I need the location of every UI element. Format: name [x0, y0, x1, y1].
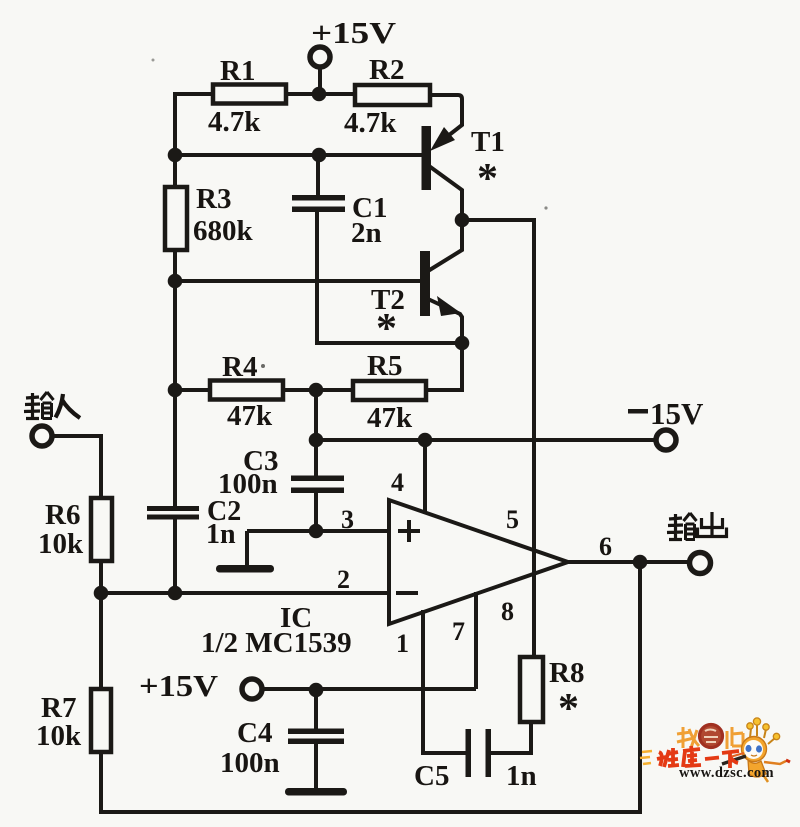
- wire: input terminal to divider: [52, 436, 101, 498]
- capacitor C1 top plate: [292, 195, 345, 201]
- resistor R6: [91, 498, 112, 561]
- capacitor C2 bottom plate: [147, 515, 199, 520]
- svg-text:7: 7: [452, 617, 465, 646]
- wire: left vertical rail C2 bottom plate to inverting-input wire: [173, 519, 177, 593]
- svg-text:100n: 100n: [218, 468, 278, 500]
- capacitor C4 stem top: [314, 689, 318, 731]
- svg-text:+15V: +15V: [139, 668, 219, 703]
- wire: pin 1 lead: [421, 610, 425, 689]
- power terminal +15V top: [310, 47, 330, 67]
- svg-text:10k: 10k: [36, 720, 82, 752]
- svg-text:1/2 MC1539: 1/2 MC1539: [201, 627, 352, 659]
- svg-text:*: *: [376, 306, 397, 352]
- wire: R5 right lead up to T2 emitter node: [426, 343, 462, 390]
- label -15V minus sign: [628, 409, 648, 414]
- resistor R2: [355, 85, 430, 105]
- wire: C1 bottom stem down and right to T2 emitter node: [317, 212, 462, 343]
- node: collector junction of T1/T2: [455, 213, 470, 228]
- label input char 入: [56, 394, 81, 418]
- resistor R1: [213, 85, 286, 104]
- wire: from collector junction right and down to R8 (pins 5 and 8 line): [462, 220, 534, 657]
- wire: non-inverting input (pin 3) wire: [247, 529, 389, 533]
- watermark text pian (片): [727, 727, 743, 749]
- svg-text:10k: 10k: [38, 528, 84, 560]
- svg-text:4: 4: [391, 468, 404, 497]
- watermark logo 找芯片 dzsc: [640, 718, 790, 782]
- svg-text:R6: R6: [45, 499, 80, 531]
- transistor T2 emitter lead with corner down to node: [428, 299, 462, 343]
- svg-text:2: 2: [337, 565, 350, 594]
- node: junction pin2 wire / C2: [168, 586, 183, 601]
- node: junction R4 wire / left rail: [168, 383, 183, 398]
- watermark chip highlight inside magnifier: [704, 730, 718, 743]
- svg-text:1n: 1n: [206, 519, 236, 550]
- watermark mascot body: [748, 760, 766, 777]
- svg-text:C4: C4: [237, 717, 272, 749]
- node: output junction: [633, 555, 648, 570]
- node: junction R4/R5/C3: [309, 383, 324, 398]
- watermark mascot head hood: [742, 737, 767, 762]
- wire: left vertical rail from R1 left end down to R3 top: [175, 94, 213, 187]
- svg-text:R3: R3: [196, 183, 231, 215]
- svg-text:1: 1: [396, 629, 409, 658]
- node: junction pin2 wire / input divider: [94, 586, 109, 601]
- label output char 出: [698, 512, 727, 537]
- svg-text:1n: 1n: [506, 760, 537, 792]
- wire: -15V rail: [316, 438, 656, 442]
- label input (Chinese 输入): [24, 392, 54, 419]
- transistor T1 emitter arrowhead: [430, 127, 455, 151]
- power terminal -15V: [656, 430, 676, 450]
- resistor R4: [210, 381, 283, 400]
- svg-text:100n: 100n: [220, 747, 280, 779]
- wire: inverting input (pin 2) wire: [100, 591, 389, 595]
- watermark mascot leg: [764, 776, 768, 782]
- watermark mascot right arm: [764, 761, 786, 764]
- svg-text:R8: R8: [549, 657, 584, 689]
- transistor T2 emitter arrowhead: [437, 296, 461, 316]
- wire: top supply rail between R1 and R2: [286, 92, 355, 96]
- transistor T1 emitter lead from R2: [430, 95, 462, 146]
- svg-text:R4: R4: [222, 351, 257, 383]
- svg-text:680k: 680k: [193, 215, 254, 247]
- op-amp minus sign: [396, 591, 418, 595]
- watermark text zhao (找): [677, 727, 699, 748]
- wire: pin 4 lead: [423, 440, 427, 514]
- input terminal: [32, 426, 52, 446]
- node: junction C3 stem / -15V rail: [309, 433, 324, 448]
- svg-text:47k: 47k: [367, 402, 413, 434]
- svg-text:4.7k: 4.7k: [208, 106, 261, 138]
- node: junction -15V rail / pin4 lead: [418, 433, 433, 448]
- wire: stem from +15V terminal to top rail: [318, 68, 322, 94]
- watermark mascot face: [744, 740, 763, 759]
- svg-text:15V: 15V: [650, 396, 704, 431]
- wire: C5 branch from pin1 junction down and right: [423, 689, 466, 753]
- node: junction R1/R2/+15V: [312, 87, 327, 102]
- transistor T1 collector lead joining T2 collector lead: [428, 166, 462, 271]
- node: junction C3 / pin3 wire: [309, 524, 324, 539]
- wire: T2 base wire: [175, 279, 420, 283]
- wire: C4 bottom stem to ground: [314, 741, 318, 789]
- watermark mascot mouth: [751, 755, 757, 756]
- capacitor C4 top plate: [288, 729, 344, 735]
- node: junction +15V rail / C4: [309, 683, 324, 698]
- watermark text weikuyixia (维库一下) red: [657, 746, 739, 768]
- wire: R4/R5 wire with left rail: [175, 388, 210, 392]
- watermark speed dashes: [640, 751, 652, 764]
- scan speck left of R1: [152, 59, 155, 62]
- wire: R6 bottom to pin2 wire junction and on to R7: [99, 561, 103, 689]
- capacitor C2 top plate: [147, 506, 199, 511]
- capacitor C1 bottom plate: [292, 207, 345, 213]
- svg-text:*: *: [558, 686, 579, 732]
- ground bar under C4: [285, 788, 347, 796]
- scan speck after R4 label: [261, 364, 265, 368]
- svg-text:8: 8: [501, 597, 514, 626]
- capacitor C1 stem top: [316, 155, 320, 196]
- wire: output wire from apex: [567, 560, 689, 564]
- resistor R7: [91, 689, 111, 752]
- svg-text:C5: C5: [414, 760, 449, 792]
- op-amp U1 triangle: [389, 500, 568, 624]
- svg-text:*: *: [477, 156, 498, 202]
- watermark mascot arm and pen: [722, 756, 746, 764]
- power terminal +15V bottom: [242, 679, 262, 699]
- capacitor C3 bottom plate: [291, 488, 344, 494]
- wire: T1 base wire: [175, 153, 422, 157]
- wire: C5 right plate to R8 bottom: [491, 722, 531, 753]
- transistor T2 base bar: [420, 251, 430, 316]
- capacitor C3 top plate: [291, 476, 344, 482]
- watermark mascot crown balls: [747, 718, 780, 744]
- wire: bottom feedback rail from R7 up right side to output node: [101, 562, 640, 812]
- scan speck near T1: [544, 206, 547, 209]
- resistor R3: [165, 187, 187, 250]
- transistor T1 base bar: [422, 126, 432, 190]
- capacitor C4 bottom plate: [288, 739, 344, 745]
- watermark mascot eyes: [746, 745, 752, 752]
- svg-text:R1: R1: [220, 55, 255, 87]
- svg-text:47k: 47k: [227, 400, 273, 432]
- capacitor C5 right plate: [486, 729, 492, 777]
- capacitor C5 left plate: [466, 729, 472, 777]
- wire: C3 bottom stem to pin3 wire: [314, 490, 318, 531]
- resistor R8: [520, 657, 543, 722]
- svg-text:4.7k: 4.7k: [344, 107, 397, 139]
- svg-text:R2: R2: [369, 54, 404, 86]
- svg-text:2n: 2n: [351, 217, 382, 249]
- node: junction base wire / left rail: [168, 148, 183, 163]
- svg-text:5: 5: [506, 505, 519, 534]
- label output (Chinese 输出): [667, 513, 697, 540]
- wire: ground stem of pin3 wire: [245, 531, 249, 567]
- svg-text:+15V: +15V: [311, 15, 397, 50]
- node: T2 emitter junction with C1 and R5: [455, 336, 470, 351]
- node: junction base wire / C1: [312, 148, 327, 163]
- svg-text:R5: R5: [367, 350, 402, 382]
- svg-text:3: 3: [341, 505, 354, 534]
- op-amp plus sign: [398, 520, 420, 542]
- wire: between R4 and R5: [283, 388, 353, 392]
- wire: C3 stem from R4/R5 junction: [314, 390, 318, 478]
- svg-text:www.dzsc.com: www.dzsc.com: [679, 765, 774, 781]
- wire: pin 7 lead: [474, 592, 478, 689]
- resistor R5: [353, 381, 426, 400]
- svg-text:6: 6: [599, 532, 612, 561]
- wire: +15V bottom rail: [262, 687, 476, 691]
- svg-text:T1: T1: [471, 126, 505, 158]
- ground bar under pin3 wire: [216, 565, 274, 573]
- watermark magnifier ring: [700, 725, 723, 748]
- wire: left vertical rail R3 bottom to C2 top plate: [173, 250, 177, 507]
- node: junction T2 base / left rail: [168, 274, 183, 289]
- output terminal: [690, 553, 711, 574]
